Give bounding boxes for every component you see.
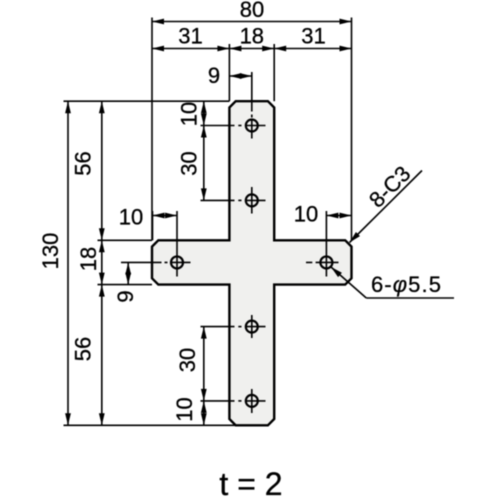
dimension 56 (lower left): [71, 285, 105, 426]
svg-text:9: 9: [113, 290, 138, 302]
extension line right edge (x=351.5) for 80/31 dims: [351, 18, 353, 241]
dimension 18 (middle segment): [229, 24, 274, 52]
hole H1 top-arm upper hole (phi 5.5): [246, 120, 258, 132]
svg-text:10: 10: [172, 397, 197, 421]
leader and label 6-phi5.5 (hole callout): [331, 267, 454, 298]
dimension 80 (overall width): [152, 0, 352, 24]
svg-text:31: 31: [301, 24, 325, 49]
dimension 10 (left arm, edge to hole): [119, 205, 177, 241]
svg-text:80: 80: [240, 0, 264, 22]
dimension 10 (right arm, hole to edge): [294, 202, 352, 227]
dimension 9 (top, bar edge to hole centerline): [208, 63, 252, 88]
extension line vertical-bar left edge up: [228, 44, 230, 101]
extension line plate bottom (y=425) to left: [64, 424, 236, 426]
extension line left edge (x=152) for 80/31 dims: [151, 18, 153, 241]
extension line bar top edge (y=240) to left: [98, 239, 153, 241]
dimension 31 (right segment): [274, 24, 351, 52]
extension line plate top (y=101) to left: [64, 100, 230, 102]
svg-text:56: 56: [71, 337, 96, 361]
svg-text:130: 130: [38, 233, 63, 270]
svg-text:30: 30: [175, 348, 200, 372]
svg-text:10: 10: [119, 205, 143, 230]
hole H5 bottom-arm upper hole (phi 5.5): [246, 321, 258, 333]
centerline H5 horizontal (ext. for 30 dim): [201, 326, 266, 328]
svg-text:6-φ5.5: 6-φ5.5: [371, 272, 442, 297]
hole H6 bottom-arm lower hole (phi 5.5): [246, 395, 258, 407]
dimension 30 (bottom arm, H5 to H6): [175, 327, 207, 401]
centerline H6 horizontal (ext. for 10 dim): [201, 400, 266, 402]
svg-text:8-C3: 8-C3: [364, 161, 415, 212]
centerline H2 vertical: [251, 187, 253, 214]
dimension 18 (left, bar height): [76, 240, 105, 284]
svg-text:10: 10: [294, 202, 318, 227]
centerline H3 vertical (ext. for left 10 dim): [176, 211, 178, 277]
dimension 130 (overall height): [38, 101, 71, 425]
hole H4 right-arm hole (phi 5.5): [320, 256, 332, 268]
dimension 30 (top arm, H1 to H2): [177, 126, 207, 201]
dimension 31 (left segment): [152, 24, 229, 52]
dimension 56 (upper left): [71, 101, 105, 240]
svg-text:31: 31: [178, 24, 202, 49]
centerline H6 vertical: [251, 389, 253, 413]
hole H2 top-arm lower hole (phi 5.5): [246, 194, 258, 206]
svg-text:10: 10: [177, 102, 202, 126]
svg-text:30: 30: [177, 151, 202, 175]
svg-text:18: 18: [240, 24, 264, 49]
centerline H2 horizontal (ext. for 30 dim): [201, 199, 266, 201]
extension line bar bottom edge (y=285) to left: [98, 284, 153, 286]
centerline H5 vertical: [251, 315, 253, 338]
centerline H4 horizontal: [306, 261, 339, 263]
centerline H1 horizontal (ext. for 10/30 chain): [201, 125, 266, 127]
centerline H1 vertical (also ext. for 9 dim): [251, 72, 253, 139]
svg-text:t = 2: t = 2: [219, 466, 282, 500]
dimension 10 (bottom arm, H6 to edge): [172, 397, 207, 425]
centerline H4 vertical (ext. for right 10 dim): [325, 211, 327, 277]
svg-text:56: 56: [71, 151, 96, 175]
cross-shaped plate outline with 8 chamfered corners: [152, 101, 352, 425]
dimension 10 (top arm, edge to hole H1): [177, 101, 207, 126]
extension line vertical-bar right edge up: [273, 44, 275, 101]
centerline H3 horizontal (ext. for 9 dim): [121, 261, 191, 263]
svg-text:18: 18: [76, 247, 101, 271]
thickness note t = 2: [219, 466, 282, 500]
hole H3 left-arm hole (phi 5.5): [171, 256, 183, 268]
leader and label 8-C3 (chamfer callout): [350, 161, 423, 243]
dimension 9 (left, hole centerline to bar bottom): [113, 262, 138, 302]
svg-text:9: 9: [208, 63, 220, 88]
